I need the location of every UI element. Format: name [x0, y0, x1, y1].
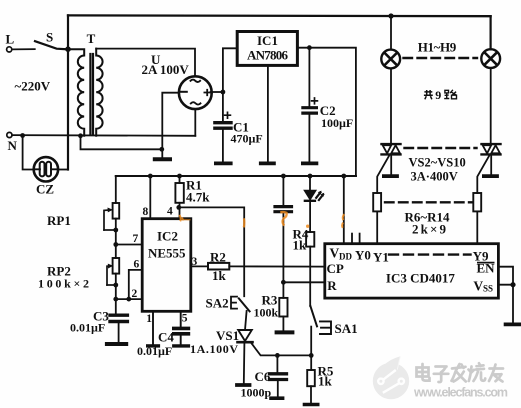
wire pin8 [149, 176, 151, 219]
svg-text:100µF: 100µF [321, 116, 353, 130]
node ground junction [159, 147, 164, 152]
wire bridge plus to C1/IC1 [211, 91, 223, 93]
svg-text:VS2~VS10: VS2~VS10 [409, 156, 466, 170]
dashed line resistors [385, 201, 473, 203]
ground IC1 [261, 161, 274, 165]
友 [489, 365, 503, 382]
capacitor C5 line from rail [282, 176, 284, 205]
capacitor C2 [308, 48, 310, 106]
svg-text:1k: 1k [212, 268, 227, 283]
thyristor VS1 [238, 330, 252, 341]
烧 [469, 363, 486, 381]
svg-text:CP: CP [327, 261, 344, 276]
node IC1 output / C2 junction [307, 45, 312, 50]
resistor R14 [473, 193, 481, 211]
label 共9路 [424, 90, 433, 99]
wire loop primary bottom to ground bus [81, 136, 162, 150]
node N junction [20, 133, 25, 138]
svg-text:V: V [330, 246, 340, 261]
svg-text:8: 8 [143, 206, 149, 218]
pin stub Y0 [351, 234, 353, 244]
scan artifact orange mark near pin4 [180, 212, 345, 228]
svg-text:CZ: CZ [36, 182, 54, 197]
scan artifact orange dash on SA2 line [243, 218, 246, 227]
resistor R6 [373, 193, 381, 211]
terminal N [7, 132, 12, 137]
wire pin4 to SA2 line [179, 207, 244, 296]
wire R6 to VS2 gate [377, 155, 389, 193]
svg-text:3: 3 [192, 256, 198, 268]
capacitor C3 [110, 314, 127, 317]
svg-text:S: S [46, 30, 53, 45]
scan artifact orange curve right of VDD line [342, 214, 344, 228]
svg-text:T: T [87, 31, 96, 46]
ground VS2 [384, 174, 397, 178]
wire L to switch [12, 48, 35, 50]
resistor R2 [191, 265, 208, 267]
node bridge+ / C1 junction [221, 90, 226, 95]
node gate/C6 junction [275, 353, 280, 358]
overline EN [477, 262, 495, 264]
wire pin6 [129, 270, 142, 299]
wire IC1 gnd pin [267, 66, 269, 162]
ground EN/VSS [506, 322, 521, 326]
svg-text:N: N [8, 138, 18, 153]
plus sign C1 [225, 112, 231, 118]
svg-text:SS: SS [483, 284, 493, 294]
watermark logo elecfans [373, 356, 409, 399]
svg-text:100k×2: 100k×2 [38, 277, 89, 291]
wire pin2 [116, 298, 142, 300]
thyristor VS10 [482, 143, 501, 145]
wire right rail drop to lamp H9 [490, 16, 492, 49]
node pin7 junction [113, 242, 118, 247]
socket CZ [34, 157, 58, 181]
wire R14 to VS10 gate [477, 155, 489, 193]
node rail/LED [308, 174, 313, 179]
IC2 NE555 box [142, 219, 191, 312]
svg-text:L: L [6, 32, 15, 47]
svg-text:470µF: 470µF [231, 132, 263, 146]
ground C4 [174, 344, 189, 347]
svg-text:1A.100V: 1A.100V [190, 342, 238, 356]
svg-text:4: 4 [167, 206, 173, 218]
wire VDD pin [343, 176, 345, 244]
ground C6 [271, 396, 283, 400]
capacitor C6 [276, 355, 278, 372]
transformer T secondary coil [96, 49, 102, 136]
dashed line thyristors [405, 147, 477, 149]
svg-text:SA1: SA1 [335, 321, 358, 336]
node pin2/RP junction [113, 297, 118, 302]
resistor R3 [279, 298, 287, 317]
svg-text:IC3 CD4017: IC3 CD4017 [386, 271, 455, 286]
node rail/C5 [281, 174, 286, 179]
svg-text:IC1: IC1 [257, 33, 278, 48]
resistor R5 [310, 355, 312, 370]
node primary bottom junction [78, 133, 83, 138]
node rail/R1 [177, 174, 182, 179]
scan artifact orange dot at R4 top [306, 225, 309, 228]
ground C3 [107, 342, 126, 346]
wire +6V rail [116, 175, 356, 177]
switch SA2 [231, 297, 237, 309]
capacitor C1 [222, 92, 224, 121]
wire CP line [229, 265, 324, 267]
svg-text:2: 2 [132, 288, 138, 300]
svg-text:IC2: IC2 [157, 229, 178, 244]
svg-text:5: 5 [182, 312, 188, 324]
plus sign C2 [312, 98, 318, 104]
node EN/VSS junction [510, 282, 515, 287]
ground R5 [305, 403, 318, 407]
IC3 CD4017 box [325, 244, 499, 298]
ground VS10 [484, 174, 497, 178]
svg-text:SA2: SA2 [206, 296, 229, 311]
电 [417, 364, 430, 381]
ground (transformer common) [155, 157, 170, 161]
resistor R1 [179, 176, 181, 183]
transformer T primary coil [68, 49, 84, 136]
svg-text:1k: 1k [318, 374, 333, 389]
rectifier U bridge [179, 76, 212, 109]
scan artifact orange 7 squiggle [280, 212, 286, 226]
svg-text:100k: 100k [254, 306, 279, 320]
resistor R4 [309, 203, 311, 232]
wire CZ left leg [23, 136, 35, 170]
thyristor VS2 [382, 143, 401, 145]
terminal L [7, 47, 12, 52]
ground VS1 [237, 383, 250, 387]
wire IC1 output [298, 48, 356, 176]
lamp H9 [481, 49, 500, 68]
wire R line [283, 281, 324, 283]
dashed line lamps [404, 57, 478, 59]
svg-text:6: 6 [134, 259, 140, 271]
wire pin7 [116, 244, 142, 246]
node RP2 wiper junction [113, 283, 118, 288]
node RP1 wiper junction [113, 228, 118, 233]
node rail/VDD [341, 174, 346, 179]
svg-text:NE555: NE555 [148, 246, 186, 261]
svg-text:2A 100V: 2A 100V [142, 62, 190, 77]
svg-text:DD: DD [339, 252, 352, 262]
svg-text:4.7k: 4.7k [186, 190, 210, 205]
node gate/R5 junction [309, 353, 314, 358]
wire live vertical (rail top to CZ) [67, 15, 69, 169]
ground C1 [216, 161, 231, 165]
发 [452, 364, 466, 382]
potentiometer RP2 [113, 258, 120, 274]
svg-text:C6: C6 [255, 369, 271, 384]
ground C2 [303, 161, 317, 165]
wire bridge bottom lead [194, 109, 196, 136]
pin stub [359, 234, 361, 244]
svg-text:~220V: ~220V [15, 79, 51, 94]
wire to IC1 input [223, 48, 237, 92]
wire bridge minus to ground [162, 93, 179, 157]
node top rail junction above H1 [388, 13, 393, 18]
svg-text:V: V [473, 279, 483, 294]
wire Y9 to R14 [476, 211, 478, 243]
node switch junction [65, 46, 71, 52]
dashed line Y1..Y9 [389, 253, 471, 255]
transformer core [89, 54, 91, 134]
node rail/pin8 [148, 174, 153, 179]
svg-text:2k×9: 2k×9 [412, 222, 447, 237]
ground R3 [277, 330, 293, 334]
svg-text:1k: 1k [293, 238, 308, 253]
wire Y1 to R6 [376, 211, 378, 243]
potentiometer RP1 [115, 176, 117, 203]
node pin4 junction [176, 205, 181, 210]
svg-text:1: 1 [146, 313, 152, 325]
wire N line to bridge bottom [12, 134, 195, 137]
svg-text:Y0: Y0 [355, 248, 371, 263]
watermark text 电子发烧友 [417, 363, 504, 382]
wire CZ right leg [58, 169, 68, 171]
svg-text:R: R [327, 278, 337, 293]
wire VS1 gate [251, 342, 311, 355]
svg-text:www.elecfans.com: www.elecfans.com [413, 386, 508, 400]
svg-text:0.01µF: 0.01µF [70, 321, 105, 335]
svg-text:R2: R2 [210, 250, 226, 265]
svg-text:1000p: 1000p [241, 386, 272, 400]
svg-text:AN7806: AN7806 [247, 48, 289, 63]
wire VSS [498, 285, 513, 323]
svg-text:C4: C4 [158, 330, 174, 345]
IC1 AN7806 box [237, 32, 297, 66]
svg-text:VS1: VS1 [216, 328, 239, 343]
子 [434, 367, 449, 383]
wire pin1 to ground [152, 311, 154, 344]
svg-text:Y1: Y1 [373, 250, 389, 265]
node R input junction [281, 280, 286, 285]
switch S blade [35, 41, 66, 49]
svg-text:H1~H9: H1~H9 [418, 40, 457, 55]
wire pin5 / capacitor C4 [180, 311, 182, 326]
ground pin1 [148, 344, 159, 347]
switch SA1 [310, 306, 317, 326]
svg-text:7: 7 [133, 233, 139, 245]
svg-text:9: 9 [435, 88, 441, 102]
lamp H1 [381, 50, 400, 69]
LED [309, 176, 311, 191]
wire EN [498, 267, 513, 285]
node pin6/pin2 junction [126, 297, 131, 302]
svg-text:RP1: RP1 [47, 213, 71, 228]
wire secondary top to bridge [96, 49, 195, 77]
scan artifact orange dash on IC2 top edge [181, 219, 191, 221]
wire top rail [68, 14, 491, 17]
svg-text:3A·400V: 3A·400V [411, 170, 458, 184]
svg-text:0.01µF: 0.01µF [137, 344, 172, 358]
